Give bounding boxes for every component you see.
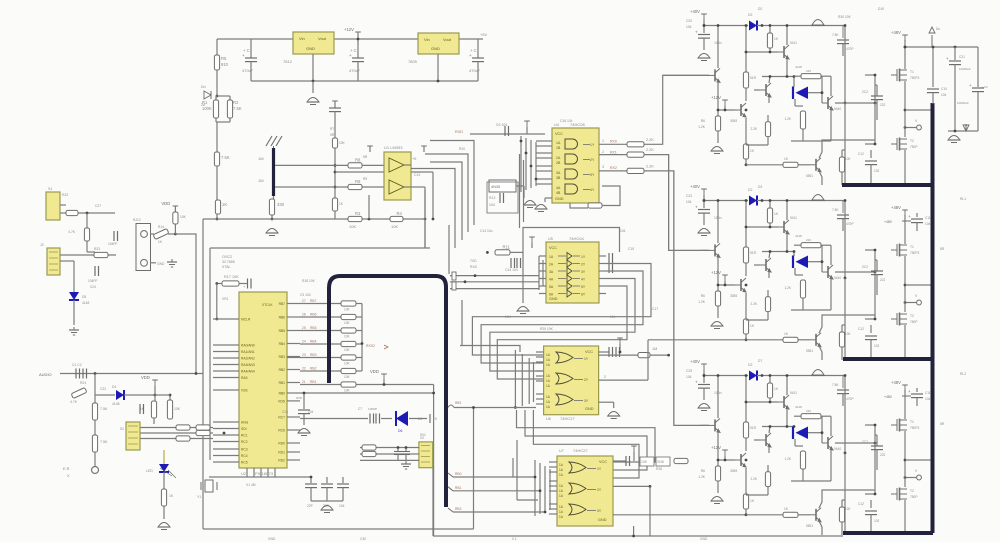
svg-text:74HC04: 74HC04 [569, 236, 584, 241]
svg-text:C23: C23 [686, 194, 692, 198]
svg-text:C28: C28 [282, 410, 288, 414]
svg-text:10000uF: 10000uF [959, 67, 971, 71]
svg-text:910: 910 [221, 62, 229, 67]
svg-text:51R: 51R [750, 251, 757, 255]
svg-text:4.7K: 4.7K [68, 230, 76, 234]
svg-text:Vin: Vin [424, 37, 430, 42]
svg-text:E.R: E.R [63, 467, 70, 471]
svg-text:RD2: RD2 [278, 459, 285, 463]
svg-text:+: + [695, 30, 698, 35]
svg-text:3Y: 3Y [584, 399, 589, 403]
svg-text:+: + [908, 214, 911, 219]
svg-text:T1: T1 [910, 70, 914, 74]
svg-text:+12V: +12V [344, 27, 354, 32]
svg-text:RA1/AN1: RA1/AN1 [241, 350, 255, 354]
svg-text:GND: GND [549, 297, 558, 301]
svg-text:GND: GND [268, 537, 276, 541]
svg-text:220: 220 [806, 409, 811, 413]
svg-text:51R: 51R [750, 426, 757, 430]
svg-text:Vin: Vin [299, 36, 305, 41]
svg-text:470uF: 470uF [469, 68, 481, 73]
svg-text:222: 222 [880, 103, 886, 107]
svg-text:C1 C2: C1 C2 [72, 363, 82, 367]
svg-text:RB3: RB3 [455, 401, 461, 405]
svg-text:RXD2: RXD2 [366, 344, 375, 348]
svg-text:RXD: RXD [296, 396, 302, 400]
svg-text:104: 104 [686, 25, 692, 29]
svg-text:3055: 3055 [730, 469, 737, 473]
svg-text:RB2: RB2 [279, 368, 286, 372]
svg-text:U6: U6 [546, 417, 551, 421]
svg-text:RB5: RB5 [310, 326, 317, 330]
svg-text:C14 10u: C14 10u [480, 229, 493, 233]
svg-text:ANG: ANG [241, 421, 249, 425]
svg-text:D2: D2 [758, 7, 762, 11]
svg-text:2Y: 2Y [581, 263, 586, 267]
svg-text:7.5K: 7.5K [832, 208, 839, 212]
svg-text:10K: 10K [344, 362, 351, 366]
svg-text:1M: 1M [258, 178, 264, 183]
svg-text:104PF: 104PF [108, 242, 117, 246]
svg-text:RD1: RD1 [278, 451, 285, 455]
svg-text:5551: 5551 [806, 524, 813, 528]
svg-text:+12V: +12V [711, 270, 721, 275]
svg-text:1M: 1M [258, 156, 264, 161]
svg-text:7812: 7812 [283, 59, 293, 64]
svg-text:D4: D4 [112, 385, 116, 389]
svg-text:VCC: VCC [585, 350, 593, 354]
svg-text:S2: S2 [120, 427, 124, 431]
svg-text:VR1: VR1 [222, 297, 229, 301]
svg-text:R30 10K: R30 10K [838, 15, 852, 19]
svg-text:+12V: +12V [711, 95, 721, 100]
svg-text:104PF: 104PF [88, 279, 97, 283]
svg-text:+48V: +48V [891, 380, 901, 385]
svg-text:R5: R5 [221, 56, 227, 61]
svg-text:+: + [469, 53, 472, 58]
svg-text:9440: 9440 [834, 276, 841, 280]
svg-text:1.2K: 1.2K [784, 457, 791, 461]
svg-text:2Y: 2Y [597, 488, 602, 492]
svg-text:2C2: 2C2 [862, 265, 868, 269]
svg-text:R9: R9 [363, 177, 367, 181]
svg-text:RB4: RB4 [279, 342, 286, 346]
svg-text:VDD: VDD [278, 399, 286, 403]
svg-text:VCC: VCC [549, 246, 557, 250]
svg-text:R8: R8 [355, 157, 361, 162]
svg-text:+48V: +48V [884, 220, 893, 224]
svg-text:100: 100 [845, 507, 851, 511]
svg-text:+C2: +C2 [982, 85, 988, 89]
svg-text:U4: U4 [554, 123, 559, 127]
svg-text:RX1: RX1 [610, 151, 617, 155]
svg-text:1Y: 1Y [581, 255, 586, 259]
svg-text:3: 3 [602, 165, 604, 169]
svg-text:3Y: 3Y [590, 173, 595, 177]
svg-text:C12: C12 [858, 327, 864, 331]
svg-text:6Y: 6Y [581, 293, 586, 297]
svg-text:22P: 22P [307, 504, 314, 508]
svg-text:104: 104 [925, 397, 931, 401]
svg-text:J2: J2 [40, 243, 44, 247]
svg-text:4148: 4148 [795, 405, 802, 409]
svg-text:5A: 5A [549, 285, 554, 289]
svg-text:RB0: RB0 [279, 392, 286, 396]
svg-text:T2: T2 [910, 314, 914, 318]
svg-text:C13: C13 [414, 173, 420, 177]
svg-text:T1: T1 [910, 245, 914, 249]
svg-text:RB6: RB6 [310, 313, 317, 317]
svg-text:10000uF: 10000uF [957, 101, 969, 105]
svg-text:RXD: RXD [455, 130, 463, 134]
svg-text:R17 10K: R17 10K [224, 275, 239, 279]
svg-text:D6: D6 [418, 417, 422, 421]
svg-text:U2: U2 [241, 472, 246, 476]
svg-text:C30: C30 [360, 537, 366, 541]
svg-text:RB6: RB6 [279, 316, 286, 320]
svg-text:R4: R4 [397, 211, 403, 216]
svg-text:1.2K: 1.2K [698, 300, 706, 304]
svg-text:10K: 10K [349, 224, 356, 229]
svg-text:+: + [946, 56, 949, 61]
svg-text:R6: R6 [701, 119, 705, 123]
svg-text:+40V: +40V [690, 359, 700, 364]
svg-text:7.5K: 7.5K [100, 440, 108, 444]
svg-text:+: + [908, 389, 911, 394]
svg-text:3A: 3A [549, 270, 554, 274]
svg-text:102: 102 [874, 169, 880, 173]
svg-text:7.5K: 7.5K [100, 407, 108, 411]
svg-text:100K: 100K [202, 106, 212, 111]
svg-text:D3: D3 [758, 185, 762, 189]
svg-text:D7: D7 [758, 359, 762, 363]
svg-text:RC3: RC3 [241, 448, 248, 452]
svg-text:3Y: 3Y [597, 509, 602, 513]
svg-text:RB4: RB4 [310, 340, 317, 344]
svg-text:3055: 3055 [730, 294, 737, 298]
svg-text:U5: U5 [548, 237, 553, 241]
svg-text:RB1: RB1 [455, 486, 462, 490]
svg-text:8R: 8R [940, 422, 945, 426]
svg-text:9411: 9411 [790, 41, 797, 45]
svg-text:XTCLK: XTCLK [262, 303, 273, 307]
svg-text:3A: 3A [556, 171, 561, 175]
svg-text:GND: GND [585, 407, 594, 411]
svg-text:102: 102 [874, 519, 880, 523]
svg-text:470P: 470P [846, 222, 853, 226]
svg-text:2Y: 2Y [584, 378, 589, 382]
svg-text:4Y: 4Y [581, 278, 586, 282]
svg-text:1Y: 1Y [590, 143, 595, 147]
svg-text:C12: C12 [858, 502, 864, 506]
svg-text:S1: S1 [48, 187, 52, 191]
svg-text:4148: 4148 [795, 234, 802, 238]
svg-text:4B: 4B [556, 191, 561, 195]
svg-text:R12: R12 [489, 196, 495, 200]
svg-text:10K: 10K [180, 215, 187, 219]
svg-text:Dn: Dn [201, 85, 206, 89]
svg-text:750P3: 750P3 [910, 251, 919, 255]
svg-text:+: + [349, 53, 352, 58]
svg-text:1.2K: 1.2K [698, 475, 706, 479]
svg-text:5R: 5R [363, 155, 368, 159]
svg-text:T1: T1 [910, 420, 914, 424]
svg-text:100: 100 [845, 332, 851, 336]
svg-text:1B: 1B [556, 146, 561, 150]
svg-text:7.5K: 7.5K [832, 33, 839, 37]
svg-text:470uF: 470uF [242, 68, 254, 73]
svg-text:5551: 5551 [806, 349, 813, 353]
svg-text:1.2K: 1.2K [784, 286, 791, 290]
svg-text:D2: D2 [748, 363, 752, 367]
svg-text:1K: 1K [169, 494, 174, 498]
svg-text:105: 105 [641, 460, 647, 464]
svg-text:2A: 2A [549, 263, 554, 267]
svg-text:R11: R11 [503, 244, 511, 249]
svg-text:R2: R2 [233, 100, 239, 105]
svg-text:3Y: 3Y [581, 270, 586, 274]
svg-text:GND: GND [306, 46, 315, 51]
svg-text:C9 104: C9 104 [496, 123, 507, 127]
svg-text:RA3/AN3: RA3/AN3 [241, 363, 255, 367]
svg-text:26: 26 [302, 313, 306, 317]
svg-text:+40V: +40V [690, 9, 700, 14]
svg-text:VSS: VSS [241, 389, 248, 393]
svg-text:C20: C20 [686, 19, 692, 23]
svg-text:R7: R7 [330, 127, 334, 131]
svg-text:+48V: +48V [891, 30, 901, 35]
svg-text:C3 104: C3 104 [300, 293, 311, 297]
svg-text:C7: C7 [358, 407, 362, 411]
svg-text:C25: C25 [686, 369, 692, 373]
svg-text:5551: 5551 [806, 174, 813, 178]
svg-text:27: 27 [302, 299, 306, 303]
svg-text:AUDIO: AUDIO [39, 372, 52, 377]
svg-text:102: 102 [874, 344, 880, 348]
svg-text:C21: C21 [959, 55, 965, 59]
svg-text:104: 104 [925, 222, 931, 226]
svg-text:3B: 3B [556, 176, 561, 180]
svg-text:C10: C10 [941, 87, 947, 91]
svg-text:OSC2: OSC2 [222, 255, 232, 259]
svg-text:104: 104 [489, 203, 495, 207]
svg-text:C11: C11 [925, 391, 931, 395]
svg-text:C24: C24 [90, 285, 96, 289]
svg-text:220: 220 [806, 69, 811, 73]
svg-text:D5: D5 [82, 295, 86, 299]
svg-text:T2: T2 [910, 489, 914, 493]
svg-text:2: 2 [602, 150, 604, 154]
svg-text:750P: 750P [910, 495, 917, 499]
svg-text:750P3: 750P3 [910, 76, 919, 80]
svg-text:4Y: 4Y [590, 188, 595, 192]
svg-text:1Y: 1Y [597, 467, 602, 471]
svg-text:U7: U7 [559, 449, 564, 453]
svg-text:10K: 10K [391, 224, 398, 229]
svg-text:RB1: RB1 [279, 381, 286, 385]
svg-text:GND: GND [431, 46, 440, 51]
svg-text:R22: R22 [62, 193, 68, 197]
svg-text:XTAL: XTAL [222, 265, 231, 269]
svg-text:RJ12: RJ12 [133, 218, 141, 222]
svg-text:7.5K: 7.5K [221, 155, 230, 160]
svg-text:23: 23 [302, 353, 306, 357]
svg-text:4148: 4148 [112, 402, 120, 406]
svg-text:5V1: 5V1 [420, 433, 426, 437]
svg-text:+ C: + C [243, 48, 250, 53]
svg-text:VDD: VDD [161, 201, 170, 206]
svg-text:MCLR: MCLR [241, 318, 251, 322]
svg-text:RL1: RL1 [960, 197, 966, 201]
svg-text:C14 104: C14 104 [505, 268, 518, 272]
svg-text:2.2K: 2.2K [646, 138, 654, 142]
svg-text:R18 10K: R18 10K [302, 279, 316, 283]
svg-text:100: 100 [845, 157, 851, 161]
svg-text:2.2K: 2.2K [646, 165, 654, 169]
svg-text:10K: 10K [344, 335, 351, 339]
svg-text:4148: 4148 [82, 301, 90, 305]
svg-text:8R: 8R [940, 247, 945, 251]
svg-text:RC5: RC5 [241, 461, 248, 465]
svg-text:2B: 2B [556, 161, 561, 165]
svg-text:+12V: +12V [711, 445, 721, 450]
svg-text:1A: 1A [556, 141, 561, 145]
svg-text:1A: 1A [549, 255, 554, 259]
svg-text:+: + [242, 53, 245, 58]
svg-text:4.7K: 4.7K [70, 400, 78, 404]
svg-text:104: 104 [686, 375, 692, 379]
svg-text:+48V: +48V [891, 205, 901, 210]
svg-text:2: 2 [604, 375, 606, 379]
svg-text:C12: C12 [858, 152, 864, 156]
svg-text:3055: 3055 [730, 119, 737, 123]
svg-text:1.2K: 1.2K [784, 117, 791, 121]
svg-text:RC7: RC7 [278, 416, 285, 420]
svg-text:10K: 10K [344, 389, 351, 393]
svg-text:+5: +5 [412, 157, 416, 161]
svg-text:C16 104: C16 104 [560, 119, 573, 123]
svg-text:+: + [969, 83, 972, 88]
svg-text:220: 220 [806, 238, 811, 242]
svg-text:104: 104 [610, 315, 616, 319]
svg-text:10K: 10K [344, 321, 351, 325]
svg-text:R6: R6 [701, 294, 705, 298]
svg-text:10K: 10K [339, 141, 346, 145]
svg-text:SDI: SDI [241, 427, 247, 431]
svg-text:9440: 9440 [834, 107, 841, 111]
svg-text:104: 104 [308, 410, 314, 414]
svg-text:RB5: RB5 [279, 329, 286, 333]
svg-text:R14: R14 [158, 225, 164, 229]
svg-text:6A: 6A [549, 293, 554, 297]
svg-text:4A: 4A [556, 186, 561, 190]
svg-text:10K: 10K [344, 375, 351, 379]
svg-text:Vout: Vout [443, 37, 452, 42]
svg-text:RX2: RX2 [610, 166, 617, 170]
svg-text:VDD: VDD [141, 375, 150, 380]
svg-text:+: + [695, 205, 698, 210]
svg-text:R3: R3 [355, 211, 361, 216]
svg-text:PIC16F73: PIC16F73 [255, 471, 274, 476]
svg-text:4A: 4A [549, 278, 554, 282]
svg-text:51R: 51R [750, 76, 757, 80]
svg-text:7805: 7805 [408, 59, 418, 64]
svg-text:5Y: 5Y [581, 285, 586, 289]
svg-text:104: 104 [339, 504, 345, 508]
svg-text:330: 330 [277, 202, 285, 207]
svg-text:7.5K: 7.5K [233, 106, 242, 111]
svg-text:D6: D6 [398, 429, 402, 433]
svg-text:10K: 10K [505, 315, 512, 319]
svg-text:R24: R24 [80, 381, 86, 385]
svg-text:21: 21 [302, 380, 306, 384]
svg-text:9411: 9411 [790, 216, 797, 220]
svg-text:4148: 4148 [795, 65, 802, 69]
svg-text:2C2: 2C2 [862, 90, 868, 94]
svg-text:2.2K: 2.2K [750, 477, 757, 481]
svg-text:10K: 10K [344, 348, 351, 352]
svg-text:2Y: 2Y [590, 158, 595, 162]
svg-text:1000P: 1000P [368, 407, 377, 411]
svg-text:0.1: 0.1 [512, 537, 517, 541]
svg-text:470P: 470P [846, 47, 853, 51]
svg-text:+5V: +5V [480, 32, 488, 37]
svg-text:R26: R26 [656, 467, 662, 471]
svg-text:RXD: RXD [470, 265, 478, 269]
svg-text:RX0: RX0 [610, 140, 617, 144]
svg-text:C11: C11 [925, 216, 931, 220]
svg-text:Y1: Y1 [197, 495, 201, 499]
svg-text:10K: 10K [344, 308, 351, 312]
svg-text:74HC27: 74HC27 [560, 416, 575, 421]
svg-text:24: 24 [302, 340, 306, 344]
svg-text:GND: GND [555, 197, 564, 201]
svg-text:C22: C22 [100, 387, 106, 391]
svg-text:2.2K: 2.2K [646, 148, 654, 152]
svg-text:Do: Do [936, 27, 940, 31]
svg-text:RB2: RB2 [455, 507, 462, 511]
svg-text:RA0/AN0: RA0/AN0 [241, 344, 255, 348]
svg-text:1: 1 [602, 139, 604, 143]
svg-text:222: 222 [880, 453, 886, 457]
svg-text:VCC: VCC [599, 460, 607, 464]
svg-text:LED: LED [146, 469, 153, 473]
svg-text:RC6: RC6 [278, 429, 285, 433]
svg-text:222: 222 [880, 278, 886, 282]
svg-text:T2: T2 [910, 139, 914, 143]
svg-text:22: 22 [302, 367, 306, 371]
svg-text:C15: C15 [628, 247, 634, 251]
svg-text:VDD: VDD [370, 369, 379, 374]
svg-text:1K: 1K [222, 202, 227, 207]
svg-text:GND: GND [598, 518, 607, 522]
svg-text:1.2K: 1.2K [698, 125, 706, 129]
svg-text:RB2: RB2 [310, 367, 317, 371]
svg-text:+ C: + C [470, 48, 477, 53]
svg-text:RD0: RD0 [278, 442, 285, 446]
svg-text:2.2K: 2.2K [750, 302, 757, 306]
svg-text:7.5K: 7.5K [832, 383, 839, 387]
svg-text:+ C: + C [350, 48, 357, 53]
svg-text:+48V: +48V [884, 395, 893, 399]
svg-text:RB3: RB3 [279, 355, 286, 359]
svg-text:9411: 9411 [790, 391, 797, 395]
svg-text:32.768K: 32.768K [222, 260, 236, 264]
svg-text:D2: D2 [748, 188, 752, 192]
svg-text:2.2K: 2.2K [750, 127, 757, 131]
svg-text:RA4/AN4: RA4/AN4 [241, 370, 255, 374]
svg-text:R9: R9 [355, 179, 361, 184]
